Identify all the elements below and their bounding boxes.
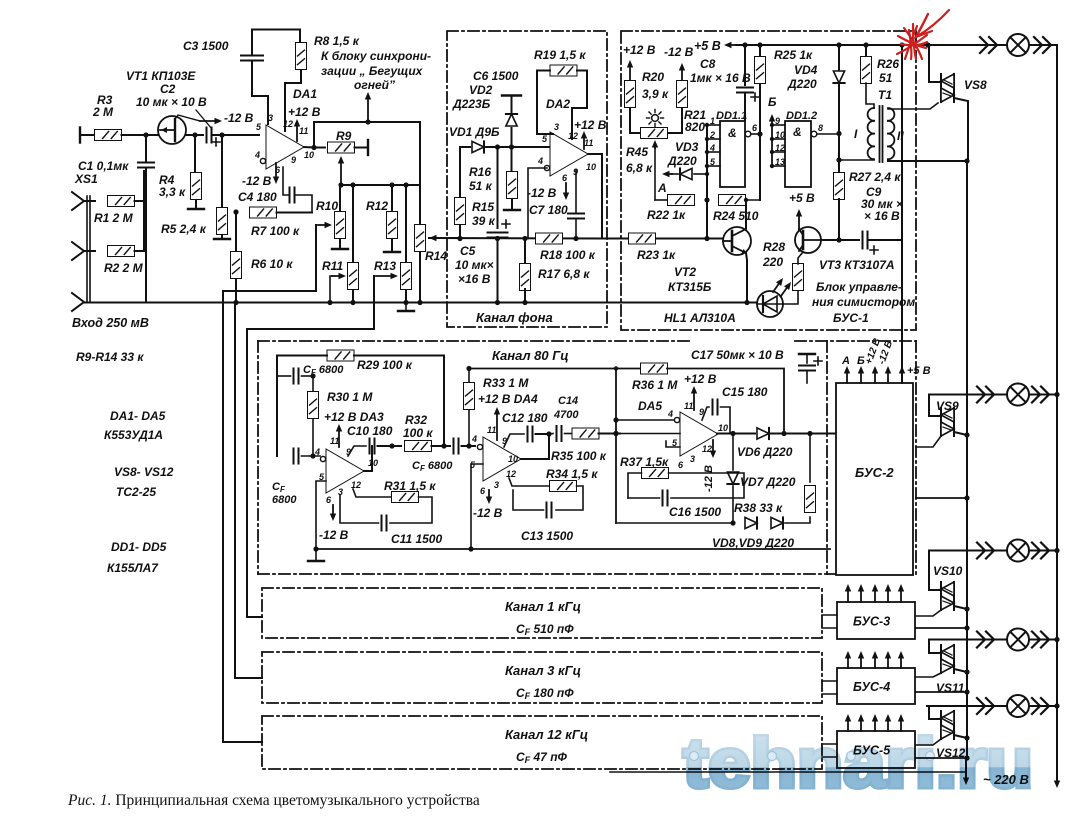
wire x967 vertical [966, 161, 968, 758]
wire C5 top [497, 147, 499, 228]
wire C15 right [721, 407, 731, 434]
wire feedback up [314, 122, 420, 148]
wire HL1 right to R28 [783, 290, 798, 304]
node DD1.1 pin 1 [705, 123, 709, 127]
svg-text:С2: С2 [160, 82, 176, 96]
node lamp row 3 right [1054, 548, 1059, 553]
node C1 top junction [143, 132, 148, 137]
wire channel feed 12kHz [223, 225, 316, 742]
svg-text:+12 В: +12 В [684, 372, 717, 386]
svg-text:R26: R26 [877, 57, 899, 71]
node R5 top [219, 132, 224, 137]
svg-text:+5 В: +5 В [907, 365, 931, 377]
node DA5 in [613, 431, 618, 436]
C5 plus [502, 220, 510, 228]
svg-text:39 к: 39 к [472, 214, 496, 228]
wire C16 left [628, 497, 660, 499]
resistor R36 [641, 363, 668, 374]
node box out VS9 [964, 495, 969, 500]
resistor R21 [677, 81, 688, 108]
wire in1 БУС-4 [822, 680, 837, 682]
arrow to sync block [365, 92, 371, 122]
diode VD7 [727, 472, 738, 484]
wire C5 bottom [497, 238, 499, 303]
svg-text:11: 11 [684, 401, 693, 411]
svg-text:С17 50мк × 10 В: С17 50мк × 10 В [691, 348, 784, 362]
connector chevrons row1 left [980, 37, 997, 53]
node R33 DA4in [466, 443, 471, 448]
ground R4 [188, 208, 204, 210]
capacitor C2 [207, 128, 212, 143]
wire C3 to top rail [252, 30, 300, 56]
node VS8 top [925, 42, 930, 47]
svg-text:CF 47 пФ: CF 47 пФ [516, 750, 568, 765]
watermark tehnari.ru [683, 724, 1033, 802]
svg-text:VD7 Д220: VD7 Д220 [740, 475, 796, 489]
connector chevrons row2 right [1032, 387, 1049, 403]
dashed box Канал 1 кГц [262, 588, 822, 638]
svg-text:+12 В: +12 В [574, 118, 607, 132]
svg-text:R2 2 М: R2 2 М [104, 261, 144, 275]
wire C1 to input rail [145, 169, 147, 302]
red scribble mark [897, 10, 949, 59]
arrow input БУС-4 [845, 651, 851, 668]
wire DA2 pin4 stub [528, 168, 547, 239]
node DA1 out [311, 145, 316, 150]
wire VT1 to C2 [186, 134, 203, 136]
wire VS9 gate [916, 436, 941, 447]
logic gate DD1.2 [785, 121, 811, 187]
svg-text:R37 1,5к: R37 1,5к [620, 455, 669, 469]
wire bottom rail 549 [316, 548, 830, 550]
svg-text:Б: Б [768, 95, 777, 109]
resistor R4 [191, 173, 202, 200]
resistor R32 [405, 441, 432, 452]
svg-text:зации „ Бегущих: зации „ Бегущих [321, 64, 424, 78]
svg-text:4: 4 [709, 143, 715, 153]
wire VS9 hook [929, 395, 941, 417]
wire primary bottom [839, 159, 874, 162]
wire R36 rail left [616, 368, 641, 370]
connector XS1 pin 2 [72, 242, 84, 260]
wire R12 top [391, 185, 393, 211]
wire R38 column [809, 434, 811, 483]
capacitor C13 [547, 503, 552, 518]
svg-text:БУС-1: БУС-1 [833, 311, 869, 325]
wire VD1 to DA2 pin5 [486, 146, 550, 148]
dashed box Канал 12 кГц [262, 716, 822, 769]
wire VS11 hook [929, 640, 941, 654]
arrow input БУС-3 [885, 584, 891, 602]
resistor R37 [642, 468, 669, 479]
svg-text:1мк × 16 В: 1мк × 16 В [690, 71, 751, 85]
node R33 top [466, 366, 471, 371]
arrow R13 wiper [376, 273, 398, 279]
svg-text:R30 1 М: R30 1 М [327, 390, 373, 404]
node C7 rail1 [573, 236, 578, 241]
wire R14 bottom [419, 252, 421, 303]
wire VT1 top to -12V arrow [175, 115, 200, 121]
arrow BUS-2 input +12 В [872, 366, 878, 383]
wire VS12 anode [954, 735, 967, 738]
svg-text:К155ЛА7: К155ЛА7 [107, 561, 159, 575]
op-amp DA4 [470, 425, 521, 496]
wire lamp row 4 [929, 639, 1057, 641]
wire R33 bottom [468, 410, 470, 446]
node C12 out [546, 431, 551, 436]
wire box out VS11 [916, 691, 967, 693]
arrow R10 wiper [318, 222, 332, 228]
svg-text:+12 В: +12 В [288, 105, 321, 119]
wire CF1 right [302, 375, 314, 377]
node sync arrow [365, 119, 370, 124]
svg-text:R22 1к: R22 1к [647, 208, 686, 222]
wire C8 top [744, 45, 746, 85]
wire XS1 to R2 [84, 250, 95, 252]
wire R10 bottom [339, 239, 341, 248]
lamp HL row4 [1007, 629, 1029, 651]
svg-text:VS8- VS12: VS8- VS12 [114, 465, 174, 479]
node VS9 anode [964, 432, 969, 437]
svg-text:R19 1,5 к: R19 1,5 к [534, 48, 586, 62]
wire DA3 pin5 down [316, 481, 326, 549]
ground R12 [384, 251, 400, 253]
node R32 CF3 [441, 443, 446, 448]
arrow BUS-2 input +5 В [899, 366, 905, 383]
node R38 top [807, 431, 812, 436]
wire x616 bottom loop [616, 522, 733, 524]
resistor R10 [335, 212, 346, 239]
wire C14 left [549, 433, 553, 436]
node top rail x902 [899, 42, 904, 47]
wire R25 bottom [759, 84, 761, 200]
svg-text:10: 10 [304, 150, 314, 160]
svg-text:VS9: VS9 [936, 399, 959, 413]
svg-text:+5 В: +5 В [789, 191, 815, 205]
wire R33 top [468, 369, 470, 384]
node VS10 anode [964, 606, 969, 611]
svg-text:13: 13 [775, 157, 785, 167]
arrow node A [662, 171, 672, 177]
wire VS11 anode [954, 669, 967, 672]
svg-text:2 М: 2 М [92, 105, 114, 119]
wire VS10 gate [916, 610, 941, 616]
svg-text:С13 1500: С13 1500 [521, 529, 573, 543]
node x616 pin4 [613, 417, 618, 422]
wire DA5 pin4 wire [616, 419, 674, 421]
resistor R11 [348, 263, 359, 290]
svg-text:VT1 КП103Е: VT1 КП103Е [126, 69, 196, 83]
node R6 rail [233, 300, 238, 305]
op-amp DA1 [254, 113, 314, 175]
svg-text:А: А [657, 181, 667, 195]
wire DA4 pin5 down [471, 464, 483, 549]
capacitor C17 [799, 366, 815, 371]
wire VS8 anode out [954, 98, 968, 161]
node rail R13 [403, 182, 408, 187]
wire VD1 row [460, 146, 470, 148]
svg-text:&: & [793, 125, 802, 139]
svg-text:11: 11 [330, 436, 339, 446]
wire R8 bottom jog [285, 70, 301, 131]
resistor R19 [550, 65, 577, 76]
svg-text:1: 1 [710, 116, 715, 126]
wire VS12 gate [916, 739, 941, 745]
diode VD3 [680, 168, 692, 179]
svg-text:9: 9 [775, 116, 780, 126]
wire R13 top [405, 185, 407, 262]
block БУС-5 [837, 731, 915, 768]
lamp HL row5 [1007, 695, 1029, 717]
svg-text:DA5: DA5 [638, 399, 662, 413]
diode VD6 [757, 428, 769, 439]
node R30 pin4 [310, 453, 315, 458]
arrow DA5 -12V [710, 440, 716, 458]
svg-text:R27 2,4 к: R27 2,4 к [849, 170, 901, 184]
wire VT2 collector [745, 200, 747, 228]
svg-text:&: & [728, 126, 737, 140]
wire R13 bottom [405, 290, 407, 303]
wire VD2 top [511, 97, 513, 112]
arrow R45 wiper [652, 140, 658, 148]
svg-text:VD3: VD3 [675, 140, 699, 154]
wire CF1 left [277, 375, 291, 377]
connector XS1 pin 3 [72, 293, 84, 311]
svg-text:С3 1500: С3 1500 [183, 39, 229, 53]
svg-text:С7 180: С7 180 [529, 203, 568, 217]
connector chevrons row3 left [977, 543, 994, 559]
arrow R9 wiper [338, 156, 344, 183]
wire bias rail [469, 368, 616, 370]
node R17 rail1 [522, 236, 527, 241]
wire DA4 pin12 loop [509, 478, 550, 486]
triac VS12 [941, 711, 954, 739]
svg-text:12: 12 [775, 143, 785, 153]
transistor VT2 [723, 227, 751, 255]
resistor R2 [108, 246, 135, 257]
wire box out VS9 [916, 497, 967, 499]
resistor R16 [507, 172, 518, 199]
resistor R31 [392, 492, 419, 503]
node VD1 C5 [495, 144, 500, 149]
svg-text:11: 11 [584, 138, 593, 148]
node rail R11 [350, 182, 355, 187]
svg-text:R38 33 к: R38 33 к [734, 501, 783, 515]
svg-text:К блоку синхрони-: К блоку синхрони- [321, 49, 431, 63]
lamp HL row2 [1007, 384, 1029, 406]
svg-text:+12 В DA4: +12 В DA4 [478, 392, 538, 406]
connector chevrons row1 right [1034, 37, 1051, 53]
connector XS1 pin 1 [72, 192, 84, 210]
dashed box 80Hz left [257, 341, 259, 574]
diode VD8 [745, 517, 757, 528]
wire C17 top [806, 354, 808, 363]
svg-text:R29 100 к: R29 100 к [357, 358, 413, 372]
arrow HL1 light 1 [773, 278, 783, 292]
wire VS8 feed [928, 45, 941, 82]
wire R30 top [312, 376, 314, 392]
svg-text:×16 В: ×16 В [458, 272, 491, 286]
arrow DA2 +12V [581, 131, 587, 149]
wire DA4 pin9 up [504, 434, 524, 447]
svg-text:С16 1500: С16 1500 [669, 505, 721, 519]
connector chevrons row5 right [1032, 698, 1049, 714]
node VD4 T1 [836, 157, 841, 162]
wire R30 bottom [312, 419, 314, 456]
arrow BUS-2 input Б [858, 366, 864, 383]
svg-text:Канал 1 кГц: Канал 1 кГц [505, 599, 581, 614]
arrow input БУС-5 [845, 714, 851, 731]
node DA4 pin5 rail [468, 546, 473, 551]
svg-text:-12 В: -12 В [527, 186, 557, 200]
wire pot top rail [341, 184, 420, 186]
svg-text:-12 В: -12 В [664, 45, 694, 59]
capacitor C8 [737, 88, 753, 93]
svg-text:VS8: VS8 [964, 78, 987, 92]
wire R24 right [746, 199, 761, 201]
svg-text:R1 2 М: R1 2 М [94, 211, 134, 225]
svg-text:огней”: огней” [354, 78, 395, 92]
triac VS11 [941, 645, 954, 673]
wire lamp row 5 [927, 705, 1057, 707]
ground R5 [214, 238, 230, 240]
node R26 top [863, 42, 868, 47]
arrow input БУС-5 [885, 714, 891, 731]
wire VS12 hook [929, 706, 941, 719]
arrow R11 wiper [332, 273, 346, 279]
wire VD7 bottom [732, 486, 734, 523]
wire DD1.2 output [817, 133, 839, 135]
wire DA3 pin9 up [348, 446, 366, 456]
wire VT3 to C9 [821, 239, 859, 241]
node box out VS12 [964, 755, 969, 760]
resistor R25 [755, 57, 766, 84]
wire channel feed 1kHz [247, 276, 374, 617]
svg-text:R24 510: R24 510 [713, 209, 759, 223]
svg-text:КТ315Б: КТ315Б [668, 280, 712, 294]
capacitor C5 [488, 233, 508, 238]
wire C12 right [536, 433, 550, 435]
wire secondary top to VS8 gate [888, 103, 938, 109]
capacitor C16 [663, 491, 668, 506]
wire rail ground stub [405, 303, 407, 311]
node VD3 pin5 [705, 172, 709, 176]
resistor R12 [387, 212, 398, 239]
node R6 top [233, 209, 238, 214]
transformer T1 primary [868, 108, 874, 159]
dashed box 80Hz top left [258, 340, 690, 342]
wire R45 wiper down [654, 148, 656, 200]
svg-text:R36 1 М: R36 1 М [632, 378, 678, 392]
svg-text:DA2: DA2 [546, 97, 570, 111]
wire R4 bottom lead [195, 200, 197, 208]
diode VD4 [833, 71, 844, 83]
wire feedback down to R14 [419, 122, 421, 185]
svg-text:Канал 12 кГц: Канал 12 кГц [505, 727, 588, 742]
svg-text:10 мк×: 10 мк× [455, 258, 494, 272]
node R22 R24 [704, 197, 709, 202]
node DD1.2 pin 9 [770, 123, 774, 127]
wire in2 БУС-3 [822, 627, 837, 629]
svg-text:R15: R15 [472, 200, 494, 214]
wire VD3 right [694, 173, 707, 175]
resistor R45 photo [641, 128, 668, 139]
wire DD1.1 pins column [706, 125, 708, 239]
arrow input БУС-4 [885, 651, 891, 668]
svg-text:6,8 к: 6,8 к [626, 161, 653, 175]
dashed box 80Hz bottom [258, 573, 913, 575]
wire R1-R2 join column [135, 201, 145, 251]
wire DD1.1 pin 5 [707, 165, 720, 167]
svg-text:R32: R32 [405, 413, 427, 427]
terminal R9 right [367, 140, 369, 155]
dashed box Канал 3 кГц [262, 652, 822, 703]
wire R26 top [865, 45, 867, 58]
connector chevrons row4 left [977, 632, 994, 648]
wire C13 to pin3 [513, 490, 544, 510]
svg-text:10 мк × 10 В: 10 мк × 10 В [136, 95, 207, 109]
arrow input БУС-3 [872, 584, 878, 602]
wire DD1.2 pin 9 [772, 124, 785, 126]
wire R4 top lead [194, 135, 196, 172]
svg-text:VT2: VT2 [674, 265, 696, 279]
svg-text:R8 1,5 к: R8 1,5 к [314, 34, 360, 48]
wire R5 bottom lead [221, 235, 223, 238]
LED HL1 [757, 291, 783, 317]
svg-text:10: 10 [586, 162, 596, 172]
op-amp DA3 [314, 436, 378, 505]
node VD6 R36 [782, 431, 786, 435]
wire CF2 right [302, 455, 321, 457]
node R4 top [192, 132, 197, 137]
svg-text:Блок управле-: Блок управле- [816, 280, 902, 294]
svg-text:БУС-3: БУС-3 [853, 615, 890, 629]
wire R9 right lead [355, 147, 367, 149]
svg-text:Канал фона: Канал фона [476, 310, 553, 325]
svg-text:С5: С5 [460, 244, 476, 258]
resistor R24 [719, 195, 746, 206]
capacitor C1 [138, 163, 154, 168]
wire R15 top [459, 147, 461, 197]
logic gate DD1.1 [720, 121, 745, 187]
wire R19 right loop [572, 71, 587, 140]
wire gnd stub [315, 549, 317, 560]
wire secondary bottom [888, 160, 967, 162]
node DD1.2 pin 13 [770, 164, 774, 168]
svg-text:VD6 Д220: VD6 Д220 [737, 445, 793, 459]
wire DD1.1 pin 2 [707, 138, 720, 140]
svg-text:CF 6800: CF 6800 [412, 460, 453, 473]
wire VS10 anode [954, 606, 967, 609]
wire VT2 emitter [746, 253, 747, 303]
arrow B node [769, 114, 775, 166]
svg-text:R5 2,4 к: R5 2,4 к [161, 222, 207, 236]
svg-text:VS10: VS10 [933, 564, 963, 578]
arrow input БУС-4 [898, 651, 904, 668]
wire fona out to VT2 base [602, 238, 723, 240]
wire in1 БУС-5 [822, 743, 837, 745]
arrow DA3 -12V [330, 505, 336, 521]
svg-text:DA1: DA1 [293, 87, 317, 101]
node DA5 out [730, 431, 735, 436]
resistor R26 [861, 57, 872, 84]
wire right main vertical [1056, 45, 1058, 770]
arrow BUS-2 input А [844, 366, 850, 383]
capacitor C15 [713, 400, 718, 415]
svg-text:R11: R11 [322, 259, 343, 273]
node R23 VT2 [704, 236, 709, 241]
arrow DA3 +12V [336, 424, 342, 447]
